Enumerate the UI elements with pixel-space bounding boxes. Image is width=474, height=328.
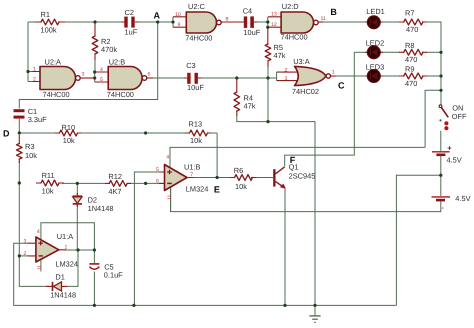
wire node A segment C2 to U2:C [139, 21, 174, 23]
svg-text:74HC00: 74HC00 [43, 90, 70, 99]
wire U1:A pin2 stub [19, 255, 28, 257]
wire C5 bottom to rail [93, 272, 95, 306]
wire D2 bottom to U1:A output [76, 205, 78, 250]
resistor R1 [35, 10, 65, 35]
svg-text:47k: 47k [274, 51, 286, 60]
svg-text:11: 11 [321, 16, 326, 22]
svg-text:10k: 10k [235, 182, 247, 191]
wire U1:A power net [41, 223, 95, 263]
svg-text:U2:C: U2:C [188, 2, 206, 11]
svg-text:74HC00: 74HC00 [107, 90, 134, 99]
diode D2 [73, 193, 114, 213]
resistor R2 [92, 23, 117, 60]
wire C4 to U2:D tie [256, 21, 268, 23]
ground [309, 316, 320, 322]
svg-text:9: 9 [178, 22, 181, 28]
node junction C5 rail [93, 304, 96, 307]
node junction R12 right / feedback [144, 182, 147, 185]
svg-text:C3: C3 [186, 61, 195, 70]
wire R8 to rail [426, 51, 441, 53]
resistor R9 [399, 65, 427, 88]
svg-text:R12: R12 [108, 172, 122, 181]
wire R11 left lead rail down to U1:A pin2 and D1 [19, 183, 48, 286]
resistor R8 [399, 41, 427, 64]
battery B2 4.5V [432, 194, 471, 212]
LED LED3 [365, 62, 384, 82]
svg-text:4.5V: 4.5V [447, 155, 462, 164]
wire ground stub [314, 305, 316, 315]
svg-text:R13: R13 [189, 120, 203, 129]
resistor R11 [36, 171, 64, 195]
wire U1:B plus input riser [134, 172, 164, 305]
svg-text:D1: D1 [55, 273, 64, 282]
svg-text:4: 4 [166, 155, 169, 161]
svg-text:U1:A: U1:A [57, 232, 74, 241]
svg-text:LED2: LED2 [366, 38, 385, 47]
capacitor C5 [89, 262, 123, 279]
wire D2 branch top [76, 183, 78, 194]
resistor R13 [185, 120, 211, 146]
wire battery1 to battery2 [440, 156, 442, 196]
node junction U2:A pin1 rail [26, 70, 29, 73]
wire R7 to right rail [426, 22, 441, 105]
node junction U1:A out / D1 [76, 248, 79, 251]
svg-text:0.1uF: 0.1uF [104, 271, 123, 280]
wire R5 bottom join [267, 66, 269, 122]
node junction D2 top [76, 182, 79, 185]
svg-text:1N4148: 1N4148 [88, 204, 114, 213]
svg-text:10uF: 10uF [243, 28, 260, 37]
wire R13 riser to E node [216, 133, 218, 178]
svg-text:R1: R1 [41, 10, 50, 19]
svg-text:10k: 10k [63, 136, 75, 145]
svg-text:2: 2 [24, 251, 27, 257]
svg-text:5: 5 [156, 167, 159, 173]
svg-text:LM324: LM324 [55, 260, 78, 269]
svg-text:R7: R7 [405, 9, 414, 18]
svg-text:R11: R11 [42, 171, 55, 180]
svg-text:100k: 100k [41, 25, 57, 34]
wire switch to battery [440, 131, 442, 151]
node junction R4/R5 ground leg [266, 120, 269, 123]
node junction U2:B tie / U2:A out [93, 76, 96, 79]
svg-text:6: 6 [148, 71, 151, 77]
svg-text:C4: C4 [243, 6, 252, 15]
svg-text:4: 4 [37, 229, 40, 235]
battery B1 4.5V [432, 144, 462, 165]
node junction U2:D tie pin13 [266, 20, 269, 23]
svg-text:R9: R9 [405, 65, 414, 74]
svg-text:C: C [338, 81, 345, 91]
svg-text:R8: R8 [405, 41, 414, 50]
capacitor C4 [241, 6, 261, 37]
NAND gate U2:B [95, 57, 153, 98]
svg-text:74HC02: 74HC02 [292, 87, 319, 96]
resistor R10 [55, 123, 81, 145]
svg-text:1N4148: 1N4148 [50, 290, 76, 299]
op-amp U1:A [24, 229, 79, 270]
node junction battery mid tap [439, 174, 442, 177]
svg-text:3: 3 [82, 71, 85, 77]
wire R11 to R12 row [62, 182, 106, 184]
wire LED2 to R8 [381, 51, 400, 53]
svg-text:LED3: LED3 [366, 62, 385, 71]
capacitor C1 [14, 107, 48, 124]
wire R9 to rail [426, 75, 441, 77]
resistor R7 [399, 9, 427, 35]
svg-text:4: 4 [100, 67, 103, 73]
LED LED2 [365, 38, 384, 58]
svg-text:1: 1 [33, 67, 36, 73]
wire U2:C to C4 [228, 21, 242, 23]
svg-text:12: 12 [271, 22, 277, 28]
resistor R4 [234, 79, 256, 116]
svg-text:D: D [3, 128, 10, 138]
node junction rail R8 [439, 51, 442, 54]
NOR gate U3:A [277, 57, 336, 96]
wire R12 to U1:B minus input [128, 182, 165, 184]
svg-text:4.5V: 4.5V [455, 194, 470, 203]
svg-text:7: 7 [190, 172, 193, 178]
wire R3 bottom to R11 node [18, 161, 20, 183]
wire U2:B output to C3 [152, 77, 186, 79]
node junction U2:C tie [171, 20, 174, 23]
svg-text:LM324: LM324 [186, 184, 209, 193]
svg-text:B: B [330, 7, 337, 17]
svg-text:R3: R3 [25, 142, 34, 151]
svg-text:F: F [290, 155, 296, 165]
op-amp U1:B [156, 155, 208, 200]
wire battery mid tap [396, 175, 440, 305]
svg-text:U1:B: U1:B [184, 162, 201, 171]
svg-text:A: A [154, 11, 161, 21]
wire LED1 to R7 [381, 21, 400, 23]
wire U3:A output C row to LED3 [335, 75, 367, 77]
svg-text:2SC945: 2SC945 [289, 172, 316, 181]
svg-text:470: 470 [406, 25, 418, 34]
svg-text:11: 11 [37, 265, 43, 270]
wire rail tap to W1 riser [425, 90, 441, 147]
svg-text:E: E [214, 185, 220, 195]
node junction R13 left / feedback [144, 131, 147, 134]
LED LED1 [365, 7, 385, 29]
svg-text:5: 5 [100, 77, 103, 83]
wire node A vertical down [19, 22, 157, 109]
wire D row R10 R13 [19, 132, 56, 134]
wire F collector to LED2 riser [285, 52, 355, 166]
resistor R12 [105, 172, 131, 196]
svg-text:R10: R10 [62, 123, 76, 132]
node junction U1:A out / C5 [93, 248, 96, 251]
svg-text:47k: 47k [244, 101, 256, 110]
svg-text:10: 10 [175, 12, 181, 18]
wire LED3 to R9 [381, 75, 400, 77]
NAND gate U2:C [173, 2, 243, 43]
wire B output row to LED1 [322, 21, 367, 23]
svg-text:1: 1 [332, 69, 335, 75]
diode D1 [46, 273, 76, 300]
capacitor C2 [121, 8, 139, 37]
NAND gate U2:D [268, 2, 326, 42]
svg-text:10k: 10k [42, 187, 54, 196]
node junction R5 bottom [266, 76, 269, 79]
svg-text:10uF: 10uF [187, 83, 204, 92]
svg-text:1uF: 1uF [125, 28, 138, 37]
wire U1:B pin11 stub [170, 187, 172, 212]
svg-text:OFF: OFF [452, 112, 467, 121]
svg-text:U2:A: U2:A [45, 57, 62, 66]
svg-text:13: 13 [271, 12, 277, 18]
wire left input rail of U2:A [27, 22, 29, 82]
resistor R3 [17, 135, 38, 163]
svg-text:6: 6 [156, 178, 159, 184]
NAND gate U2:A [33, 57, 95, 98]
node junction emitter rail [283, 304, 286, 307]
svg-text:10k: 10k [190, 136, 202, 145]
node junction U2:B tie pin4 / R2 [93, 70, 96, 73]
svg-text:3: 3 [285, 76, 288, 82]
svg-text:2: 2 [33, 77, 36, 83]
resistor R6 [230, 166, 257, 191]
wire W1 horizontal to U1:B pin4 [170, 147, 425, 167]
node A junction [156, 20, 159, 23]
capacitor C3 [184, 61, 204, 92]
node E junction [216, 176, 219, 179]
node junction rail W1 tap [439, 89, 442, 92]
wire U2:D input tie [267, 17, 269, 27]
node junction U2:D tie pin12 / R5 [266, 26, 269, 29]
svg-text:470: 470 [405, 79, 417, 88]
node junction U1:A pin2 [18, 254, 21, 257]
wire U1:A pin11 stub [40, 260, 42, 272]
wire LED2 row from F riser [354, 51, 367, 53]
svg-text:470: 470 [405, 55, 417, 64]
wire C3 to U3:A [200, 77, 277, 79]
wire U2:A input stubs tie [28, 72, 33, 82]
svg-text:LED1: LED1 [366, 7, 385, 16]
wire U2:C input tie [172, 17, 174, 27]
transistor Q1 [273, 162, 315, 188]
wire battery2 to W3 [171, 187, 441, 212]
wire R13 right to riser [210, 132, 217, 134]
wire R4 bottom to ground leg [237, 115, 315, 305]
wire E row U1:B output [193, 177, 231, 179]
node junction pin5 riser rail [132, 304, 135, 307]
svg-text:U3:A: U3:A [293, 57, 310, 66]
svg-text:U2:B: U2:B [109, 57, 126, 66]
svg-text:11: 11 [167, 195, 173, 200]
svg-text:74HC00: 74HC00 [281, 33, 308, 42]
wire R6 to Q1 base [256, 177, 274, 179]
wire U3:A input tie [276, 72, 278, 81]
node junction ground rail [313, 304, 316, 307]
svg-text:4K7: 4K7 [108, 187, 121, 196]
resistor R5 [265, 29, 286, 68]
wire bottom rail [14, 243, 397, 305]
svg-text:1: 1 [65, 244, 68, 250]
svg-text:3: 3 [24, 238, 27, 244]
node junction R11 left [18, 181, 21, 184]
wire C1 bottom to node D [18, 119, 20, 133]
svg-text:74HC00: 74HC00 [185, 34, 212, 43]
svg-text:U2:D: U2:D [282, 2, 299, 11]
node junction R2 top [93, 20, 96, 23]
svg-text:R6: R6 [234, 166, 243, 175]
svg-text:470k: 470k [101, 45, 117, 54]
wire U2:B input tie [94, 72, 96, 82]
wire R2 branch [94, 24, 96, 36]
node D junction [18, 131, 21, 134]
svg-text:C2: C2 [125, 8, 134, 17]
switch SW ON/OFF [439, 103, 467, 130]
svg-text:10k: 10k [25, 151, 37, 160]
node junction rail R9 [439, 74, 442, 77]
wire D1 right to output riser [67, 250, 79, 286]
node junction R4 top [235, 76, 238, 79]
svg-text:+: + [447, 144, 452, 153]
svg-text:8: 8 [226, 17, 229, 23]
svg-text:2: 2 [285, 67, 288, 73]
svg-text:3.3uF: 3.3uF [28, 115, 47, 124]
wire Q1 emitter to bottom rail [284, 189, 286, 306]
wire top rail R1/C2 row [28, 21, 38, 23]
wire U1:A output row [65, 249, 94, 251]
